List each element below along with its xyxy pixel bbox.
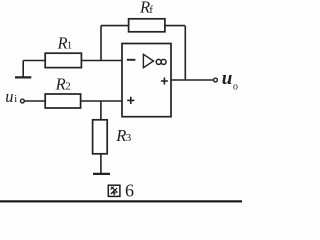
- svg-text:6: 6: [125, 181, 134, 201]
- svg-text:R: R: [55, 74, 66, 93]
- svg-text:u: u: [5, 87, 13, 106]
- svg-text:1: 1: [67, 39, 73, 51]
- svg-text:3: 3: [126, 132, 132, 144]
- svg-text:f: f: [149, 4, 153, 16]
- svg-text:o: o: [233, 82, 238, 93]
- svg-text:2: 2: [65, 80, 71, 92]
- svg-text:u: u: [222, 68, 233, 89]
- svg-text:R: R: [115, 126, 126, 145]
- svg-text:i: i: [14, 94, 17, 105]
